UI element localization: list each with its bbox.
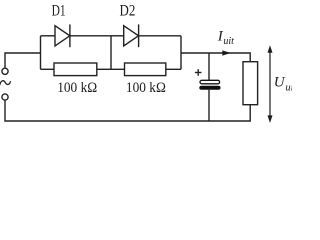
resistor R2 100 kOhm bbox=[125, 63, 166, 76]
node C vertical (block 2 right) bbox=[180, 36, 182, 70]
svg-text:100 kΩ: 100 kΩ bbox=[126, 80, 166, 96]
wire diode branch 2 left bbox=[111, 35, 124, 37]
diode D1 bbox=[55, 26, 70, 46]
wire left bottom bbox=[5, 100, 250, 121]
load resistor box bbox=[243, 62, 258, 105]
wire output top bbox=[181, 53, 250, 62]
wire resistor branch 2 right bbox=[166, 68, 181, 70]
terminal circle bottom bbox=[2, 94, 8, 100]
wire resistor branch 2 left bbox=[111, 68, 125, 70]
plus sign of capacitor bbox=[195, 69, 202, 76]
terminal circle top bbox=[2, 68, 8, 74]
capacitor top lead bbox=[208, 53, 210, 80]
AC source tilde bbox=[0, 81, 11, 86]
wire top-left input bbox=[5, 53, 41, 68]
svg-text:D2: D2 bbox=[120, 2, 136, 19]
capacitor bottom lead bbox=[208, 90, 210, 121]
capacitor C bottom plate (solid) bbox=[199, 86, 220, 90]
capacitor C top plate (positive, hollow) bbox=[200, 80, 220, 84]
node A vertical (block 1 left) bbox=[40, 36, 42, 70]
svg-text:U: U bbox=[274, 75, 286, 91]
U_uit voltage arrow (double headed) bbox=[268, 45, 273, 123]
node B vertical (junction between blocks) bbox=[110, 36, 112, 70]
svg-text:100 kΩ: 100 kΩ bbox=[57, 80, 97, 96]
wire diode branch 1 right bbox=[70, 35, 111, 37]
wire diode branch 1 left bbox=[41, 35, 56, 37]
diode D2 bbox=[124, 26, 139, 46]
svg-text:D1: D1 bbox=[52, 2, 66, 19]
svg-text:uit: uit bbox=[223, 36, 234, 47]
wire diode branch 2 right bbox=[139, 35, 181, 37]
wire resistor branch 1 left bbox=[41, 68, 55, 70]
svg-text:uit: uit bbox=[285, 82, 292, 93]
wire resistor branch 1 right bbox=[97, 68, 111, 70]
resistor R1 100 kOhm bbox=[54, 63, 97, 76]
current arrowhead on output wire bbox=[222, 50, 231, 55]
